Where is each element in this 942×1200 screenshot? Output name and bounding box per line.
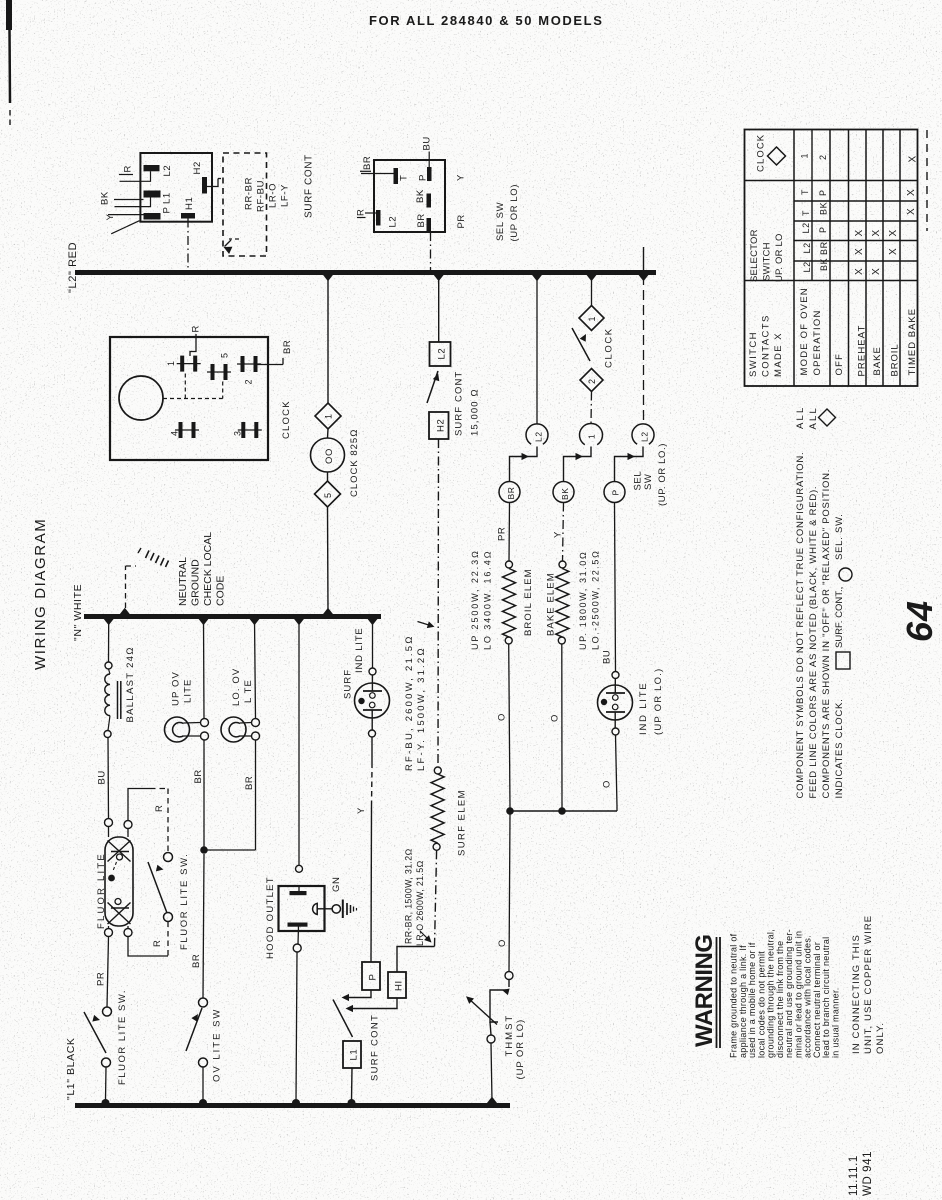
svg-text:"L2" RED: "L2" RED — [67, 242, 79, 293]
wire: broil elem to junction — [509, 644, 510, 808]
svg-text:2: 2 — [244, 379, 254, 385]
svg-text:BROIL: BROIL — [890, 343, 901, 376]
svg-text:SURF CONT: SURF CONT — [304, 154, 315, 218]
svg-text:BR: BR — [506, 486, 516, 499]
sel sw contact BR — [499, 482, 520, 503]
svg-text:FLUOR LITE SW.: FLUOR LITE SW. — [179, 853, 190, 950]
upper oven light UP OV LITE — [165, 717, 190, 742]
svg-text:CODE: CODE — [215, 576, 227, 606]
wire: L1 terminal to L1 bus — [351, 1068, 354, 1101]
svg-text:INDICATES CLOCK.: INDICATES CLOCK. — [834, 699, 845, 799]
svg-text:CLOCK 825Ω: CLOCK 825Ω — [349, 428, 360, 497]
wire: thermostat to L1 bus — [491, 1043, 492, 1101]
wire: L2 bus drop to surf cont — [438, 275, 440, 342]
svg-text:H1: H1 — [184, 197, 195, 210]
wire: N WHITE neutral bus — [84, 614, 381, 619]
svg-text:OV LITE SW: OV LITE SW — [212, 1008, 223, 1082]
svg-text:BR: BR — [819, 241, 829, 255]
plug junction — [615, 447, 644, 482]
svg-text:BU: BU — [602, 650, 613, 664]
svg-text:L2: L2 — [388, 216, 399, 228]
svg-text:LR-O 2600W, 21.5Ω: LR-O 2600W, 21.5Ω — [415, 860, 425, 946]
svg-text:T: T — [399, 175, 410, 181]
svg-text:R: R — [123, 165, 134, 172]
svg-text:(UP. OR LO.): (UP. OR LO.) — [657, 443, 668, 506]
svg-text:OO: OO — [324, 448, 335, 464]
svg-text:BR: BR — [193, 769, 204, 783]
svg-text:1: 1 — [324, 413, 334, 419]
svg-text:R: R — [356, 209, 367, 216]
wire: PR fluor lite to switch — [107, 937, 109, 1008]
wire: ind lite to return junction — [616, 735, 618, 811]
svg-text:SURF CONT: SURF CONT — [454, 371, 465, 436]
svg-text:LF-Y. 1500W, 31.2Ω: LF-Y. 1500W, 31.2Ω — [416, 646, 427, 771]
svg-text:BU: BU — [97, 770, 108, 784]
svg-text:L1: L1 — [162, 192, 173, 204]
svg-text:2: 2 — [818, 154, 828, 160]
thermostat THMST (UP OR LO) — [505, 972, 513, 980]
svg-text:T: T — [800, 189, 810, 195]
svg-text:P: P — [818, 189, 828, 196]
svg-text:WD 941: WD 941 — [862, 1151, 874, 1196]
wire: L2 RED feed bus — [75, 270, 656, 275]
svg-text:L2: L2 — [162, 165, 173, 177]
wire: N bus to up oven light — [203, 619, 206, 719]
svg-text:MODE OF OVEN: MODE OF OVEN — [799, 287, 810, 375]
node: L1 bus junctions — [102, 1099, 110, 1107]
wire: diamond 2 to sel sw terminal 1 — [590, 392, 593, 425]
svg-text:FLUOR LITE SW.: FLUOR LITE SW. — [117, 989, 128, 1085]
svg-text:SEL: SEL — [633, 471, 644, 491]
svg-text:64: 64 — [899, 600, 940, 642]
plug junction — [564, 447, 592, 482]
svg-text:SURF CONT: SURF CONT — [370, 1014, 381, 1081]
clock contact diamond 1 — [579, 306, 604, 331]
svg-text:H2: H2 — [436, 419, 447, 432]
svg-text:COMPONENTS ARE SHOWN IN "OFF": COMPONENTS ARE SHOWN IN "OFF" OR "RELAXE… — [821, 469, 832, 799]
node: BR junction — [200, 846, 208, 854]
svg-text:X: X — [888, 248, 899, 255]
svg-text:LF-Y: LF-Y — [280, 184, 291, 207]
scan noise overlay (decorative) — [0, 0, 1, 1]
wire — [327, 472, 329, 481]
svg-text:LITE: LITE — [183, 679, 194, 703]
svg-text:LO. OV: LO. OV — [231, 668, 242, 706]
svg-text:X: X — [908, 155, 919, 162]
svg-text:O: O — [602, 780, 613, 788]
plug junction — [510, 447, 538, 482]
svg-text:X: X — [871, 229, 882, 236]
wire: P terminal to surf ind lite — [370, 806, 373, 962]
surface indicator light SURF IND LITE — [369, 668, 376, 675]
svg-text:LO.-2500W, 22.5Ω: LO.-2500W, 22.5Ω — [591, 549, 601, 650]
bake element BAKE ELEM — [559, 561, 566, 568]
wire: ov lite sw to L1 bus — [202, 1067, 204, 1100]
ground: neutral ground check local code — [125, 566, 127, 608]
svg-text:SELECTOR: SELECTOR — [749, 229, 760, 282]
svg-text:SURF ELEM: SURF ELEM — [457, 789, 468, 856]
svg-text:WIRING DIAGRAM: WIRING DIAGRAM — [32, 518, 49, 670]
svg-text:ALL: ALL — [795, 405, 806, 429]
svg-text:CLOCK: CLOCK — [604, 327, 615, 368]
clock contact diamond 2 — [580, 369, 603, 392]
svg-text:BK: BK — [819, 258, 829, 271]
switch: FLUOR LITE SW (starter) — [164, 853, 173, 862]
svg-text:TIMED BAKE: TIMED BAKE — [907, 308, 918, 376]
sel sw terminal L2 (lite) — [632, 424, 654, 444]
svg-text:X: X — [854, 248, 865, 255]
switch: clock contact blade — [572, 328, 590, 361]
wire: BU to oven ind lite — [615, 503, 616, 672]
sel sw contact P — [604, 482, 625, 503]
svg-text:SWITCH: SWITCH — [762, 242, 773, 281]
surf cont terminal L1 — [343, 1041, 361, 1068]
connector J2: selector switch plug (pins T, L2, P, BK, BR) — [374, 160, 445, 232]
svg-text:(UP OR LO): (UP OR LO) — [515, 1019, 526, 1080]
wire: PR to broil element — [508, 503, 511, 562]
svg-text:L1: L1 — [349, 1049, 360, 1061]
svg-text:SEL SW: SEL SW — [495, 202, 506, 241]
wire: bake elem to junction — [561, 644, 563, 808]
svg-text:HOOD OUTLET: HOOD OUTLET — [265, 876, 276, 959]
svg-text:IND LITE: IND LITE — [638, 682, 649, 735]
svg-text:LR-O: LR-O — [268, 183, 279, 208]
surf cont terminal H2 — [429, 412, 449, 439]
svg-text:RF-BU.: RF-BU. — [256, 177, 267, 212]
svg-text:CONTACTS: CONTACTS — [761, 314, 772, 377]
fluorescent lamp FLUOR LITE — [105, 837, 133, 926]
svg-text:OFF: OFF — [834, 353, 845, 376]
wire: hood outlet to L1 bus — [293, 944, 301, 952]
svg-text:BR: BR — [191, 954, 202, 968]
svg-text:P: P — [162, 207, 173, 214]
svg-text:R: R — [154, 805, 165, 812]
surf cont terminal P — [362, 962, 380, 990]
wire: dashed links motor to pins — [163, 398, 223, 400]
svg-text:UP. OR LO: UP. OR LO — [774, 233, 785, 282]
clock terminal box with motor and pins 1-5 — [110, 337, 268, 460]
svg-text:FLUOR LITE: FLUOR LITE — [96, 852, 107, 929]
svg-text:5: 5 — [220, 352, 230, 358]
svg-text:(UP OR LO.): (UP OR LO.) — [653, 668, 664, 735]
svg-text:BAKE ELEM: BAKE ELEM — [546, 572, 557, 636]
wire: L2 bus drop to sel sw terminal L2 — [536, 275, 538, 424]
wire: H1 terminal arrow to switch — [348, 998, 397, 1009]
surface element SURF ELEM — [434, 767, 441, 774]
clock terminal diamond 1 — [315, 403, 341, 429]
ground: GN hood outlet ground — [342, 900, 344, 919]
svg-text:BAKE: BAKE — [872, 346, 883, 375]
wire — [327, 429, 330, 438]
svg-text:L2: L2 — [802, 242, 812, 253]
svg-text:5: 5 — [323, 492, 333, 498]
svg-text:SWITCH: SWITCH — [748, 331, 759, 377]
svg-text:P: P — [818, 226, 828, 233]
svg-text:L2: L2 — [801, 222, 811, 233]
svg-text:P: P — [368, 974, 379, 981]
wire: Y to bake element — [563, 503, 564, 562]
svg-text:15,000 Ω: 15,000 Ω — [470, 388, 481, 436]
svg-text:BK: BK — [415, 189, 426, 203]
svg-text:BK: BK — [560, 487, 570, 500]
svg-text:L2: L2 — [437, 348, 448, 360]
svg-text:BR: BR — [416, 213, 427, 227]
svg-text:Y: Y — [553, 531, 564, 538]
svg-text:P: P — [418, 174, 429, 181]
node: L2 bus junctions — [323, 274, 334, 281]
table edge dashes — [926, 130, 928, 231]
svg-text:BR: BR — [244, 776, 255, 790]
wire: L2 bus drop to sel sw terminal L2 (lite) — [643, 247, 645, 272]
svg-text:"L1" BLACK: "L1" BLACK — [65, 1038, 77, 1100]
svg-text:(UP OR LO): (UP OR LO) — [509, 184, 520, 242]
switch: FLUOR LITE SW (line) — [103, 1007, 112, 1016]
table: switch contacts made X — [745, 130, 918, 387]
svg-text:UP OV: UP OV — [171, 671, 182, 706]
svg-text:4: 4 — [170, 430, 180, 436]
wire: N bus to ballast — [108, 619, 110, 662]
svg-text:UP. 1800W, 31.0Ω: UP. 1800W, 31.0Ω — [578, 551, 588, 650]
svg-text:COMPONENT SYMBOLS DO NOT REFLE: COMPONENT SYMBOLS DO NOT REFLECT TRUE CO… — [795, 452, 806, 799]
svg-text:UNIT, USE COPPER WIRE: UNIT, USE COPPER WIRE — [863, 915, 874, 1054]
sel sw terminal 1 — [580, 424, 603, 445]
switch: OV LITE SW — [199, 998, 208, 1007]
svg-text:R: R — [191, 325, 202, 332]
wire: N bus to lo oven light — [255, 619, 256, 719]
svg-text:SURF: SURF — [343, 669, 354, 699]
svg-text:BK: BK — [100, 191, 111, 205]
svg-text:L2: L2 — [534, 431, 544, 442]
svg-text:11.11.1: 11.11.1 — [848, 1155, 860, 1196]
svg-text:O: O — [497, 939, 508, 947]
svg-text:BU: BU — [422, 136, 433, 150]
svg-text:SW: SW — [643, 473, 654, 490]
node: N bus junctions — [103, 618, 114, 625]
svg-text:RR-BR, 1500W, 31.2Ω: RR-BR, 1500W, 31.2Ω — [404, 848, 414, 944]
switch: surf cont line blade — [333, 1000, 353, 1038]
wire: L1 BLACK feed bus — [75, 1103, 510, 1108]
svg-text:O: O — [497, 713, 508, 721]
wire: junction to thermostat — [509, 814, 510, 972]
svg-text:SEL. SW.: SEL. SW. — [834, 513, 845, 560]
svg-text:OPERATION: OPERATION — [812, 309, 823, 375]
svg-text:FEED LINE COLORS ARE AS NOTED: FEED LINE COLORS ARE AS NOTED (BLACK, WH… — [808, 486, 819, 799]
svg-text:ALL: ALL — [808, 406, 819, 430]
wire: BR lo ov lite to junction — [255, 740, 257, 850]
surf cont terminal H1 — [388, 972, 406, 998]
svg-text:WARNING: WARNING — [691, 935, 718, 1048]
svg-text:3: 3 — [233, 430, 243, 436]
svg-text:X: X — [906, 208, 917, 215]
receptacle HOOD OUTLET — [279, 886, 325, 931]
lower oven light LO OV LITE — [221, 717, 246, 742]
clock terminal diamond 5 — [315, 481, 341, 507]
wire: switch to L1 bus — [105, 1067, 108, 1100]
svg-text:RF-BU, 2600W, 21.5Ω: RF-BU, 2600W, 21.5Ω — [404, 634, 415, 771]
svg-text:CLOCK: CLOCK — [281, 400, 292, 439]
sel sw terminal L2 (broil) — [526, 424, 548, 444]
svg-text:PREHEAT: PREHEAT — [857, 325, 868, 377]
connector J1: surface unit receptacle (pins L2, L1, P, H1, H2) — [140, 153, 212, 222]
wire: L2 bus drop to clock contact diamond 1 — [591, 275, 593, 306]
clock motor M1 (825 ohm) — [311, 438, 345, 472]
svg-text:X: X — [906, 189, 917, 196]
wire: H2 to surf elem — [437, 439, 440, 767]
svg-text:LO 3400W. 16.4Ω: LO 3400W. 16.4Ω — [483, 550, 493, 650]
wire: diamond 5 to N bus — [327, 507, 330, 612]
svg-text:CLOCK: CLOCK — [756, 134, 767, 172]
svg-text:1: 1 — [587, 316, 597, 322]
svg-text:X: X — [871, 268, 882, 275]
svg-text:Y: Y — [456, 174, 467, 181]
svg-text:SURF. CONT.,: SURF. CONT., — [834, 587, 845, 648]
ballast coil BALLAST 24 ohm — [105, 662, 112, 669]
svg-text:X: X — [854, 229, 865, 236]
svg-text:FOR ALL 284840 & 50 MODELS: FOR ALL 284840 & 50 MODELS — [369, 13, 604, 28]
svg-text:1: 1 — [800, 153, 810, 159]
svg-text:UP 2500W, 22.3Ω: UP 2500W, 22.3Ω — [470, 549, 480, 650]
wire: H1 pin drop to L2 bus — [187, 219, 189, 272]
wire: P terminal arrow to switch — [344, 990, 371, 998]
surf cont dashed enclosure — [223, 153, 267, 256]
wire: N bus to surf ind lite — [372, 619, 374, 668]
svg-text:BR: BR — [362, 156, 373, 170]
wire: R loop to fluor lite sw — [128, 789, 150, 821]
wire: surf elem to terminal H1 — [435, 850, 437, 946]
svg-text:BR: BR — [282, 340, 293, 354]
svg-text:PR: PR — [456, 214, 467, 228]
svg-text:X: X — [888, 229, 899, 236]
wire: sw to fluor lite pin — [167, 922, 169, 957]
svg-text:GN: GN — [331, 877, 342, 892]
svg-text:1: 1 — [166, 360, 176, 366]
surf cont terminal L2 — [430, 342, 451, 366]
svg-text:THMST: THMST — [504, 1014, 515, 1057]
sel sw contact BK — [553, 482, 574, 503]
svg-text:NEUTRAL: NEUTRAL — [177, 557, 189, 606]
wire: connector drop to L2 bus — [430, 232, 432, 271]
svg-text:RR-BR: RR-BR — [244, 177, 255, 210]
svg-text:BROIL ELEM: BROIL ELEM — [523, 568, 534, 636]
svg-text:Y: Y — [356, 807, 367, 814]
svg-text:R: R — [152, 940, 163, 947]
svg-text:O: O — [550, 714, 561, 722]
svg-text:in usual manner.: in usual manner. — [830, 987, 840, 1058]
wire: BU ballast to fluor lite — [107, 738, 110, 819]
svg-text:BK: BK — [819, 202, 829, 215]
svg-text:PR: PR — [96, 972, 107, 986]
broil element BROIL ELEM — [506, 561, 513, 568]
wire: H2 pin lead to surf cont — [207, 179, 218, 187]
svg-text:MADE X: MADE X — [773, 332, 784, 377]
svg-text:GROUND: GROUND — [190, 559, 202, 606]
wire: L2 bus to clock diamond 1 — [327, 275, 329, 403]
svg-text:P: P — [611, 489, 621, 495]
svg-text:CHECK LOCAL: CHECK LOCAL — [202, 532, 214, 606]
svg-text:PR: PR — [497, 527, 508, 541]
wire: BR junction to ov lite sw — [203, 854, 204, 998]
svg-text:IND LITE: IND LITE — [354, 628, 365, 673]
wire: BR up ov lite down — [203, 740, 205, 847]
svg-text:ONLY.: ONLY. — [875, 1022, 886, 1054]
switch: surf cont contact blade — [427, 371, 438, 403]
svg-text:X: X — [854, 268, 865, 275]
svg-text:BALLAST 24Ω: BALLAST 24Ω — [125, 646, 136, 722]
svg-text:2: 2 — [587, 378, 597, 384]
svg-text:HI: HI — [394, 980, 405, 991]
svg-text:T: T — [801, 210, 811, 216]
svg-text:H2: H2 — [192, 161, 203, 174]
svg-text:L2: L2 — [640, 431, 650, 442]
svg-text:L TE: L TE — [243, 679, 254, 703]
node: broil/bake return junction — [506, 807, 514, 815]
oven indicator light IND LITE (UP OR LO) — [612, 672, 619, 679]
wire: N bus to hood outlet — [298, 619, 300, 865]
svg-text:"N" WHITE: "N" WHITE — [72, 584, 84, 641]
svg-text:IN CONNECTING THIS: IN CONNECTING THIS — [851, 934, 862, 1054]
svg-text:L2: L2 — [802, 261, 812, 272]
svg-text:1: 1 — [587, 434, 597, 439]
